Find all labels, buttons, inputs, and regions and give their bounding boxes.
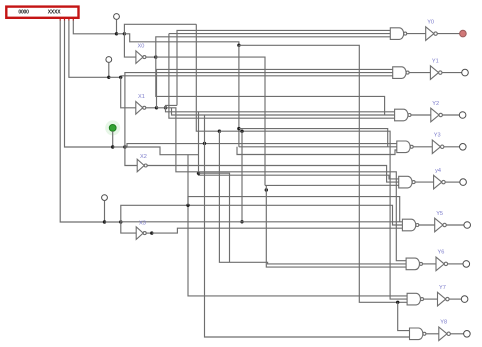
wire Y5 NAND to inverter	[419, 224, 435, 226]
wire x=239 drop to Y3 input 2 rail	[238, 45, 240, 147]
wire pin D stem	[104, 201, 106, 223]
wire y4 NAND to inverter	[415, 181, 434, 183]
wire A junction link	[117, 33, 125, 35]
wire Y0 NAND to inverter	[407, 33, 426, 35]
wire Y2 input 3 rail from x=169	[169, 34, 395, 119]
input pin A	[114, 14, 120, 20]
output pin Y5	[464, 222, 471, 229]
node A mid junction	[237, 44, 240, 47]
wire C drop to X2 input	[125, 147, 137, 166]
wire box pin3 to B row	[69, 20, 109, 77]
NAND gate Y2 driver	[395, 109, 408, 121]
NAND gate y4 driver	[399, 176, 412, 188]
input pin D	[102, 195, 108, 201]
wire Y7 NAND to inverter	[424, 298, 438, 300]
inverter Y3	[432, 140, 440, 154]
wire Y7 inverter to pin	[449, 298, 461, 300]
wire y=185.4 rail to y4 input 3	[265, 184, 399, 186]
wire X2 output rail to y4 input 2 feeder	[147, 166, 399, 183]
wire Y8 NAND to inverter	[426, 333, 439, 335]
output pin Y3	[460, 144, 467, 151]
wire C up branch to Y1 input 2 rail	[125, 73, 393, 147]
wire X3 rail up to Y5 input 3	[152, 228, 403, 233]
NAND gate Y8 driver	[410, 328, 423, 340]
wire Y2 input 1 rail	[166, 108, 395, 112]
output pin y4	[460, 179, 467, 186]
inverter X3	[136, 227, 143, 240]
node x=239 y=128 junction	[237, 127, 240, 130]
wire Y0 input 2 rail	[169, 33, 390, 35]
NAND gate Y5 driver	[402, 219, 415, 231]
svg-text:Y7: Y7	[439, 285, 446, 291]
inverter Y5	[435, 218, 443, 232]
wire x=397 drop to Y8 input 1	[398, 302, 410, 330]
input probe C green halo	[105, 120, 120, 135]
svg-text:XXXX: XXXX	[48, 10, 61, 16]
output pin Y0	[460, 30, 467, 37]
wire y4 inverter to pin	[445, 181, 460, 183]
wire box pin1 to D row	[60, 20, 104, 222]
node B junction 1	[107, 76, 110, 79]
output pin Y8	[464, 331, 471, 338]
wire Y8 inverter to pin	[450, 333, 463, 335]
NAND gate Y1 driver	[393, 67, 406, 79]
wire y=131 rail to Y7 input 2 feeder	[219, 131, 407, 299]
node C junction 1	[111, 145, 114, 148]
wire probe C stem	[112, 131, 114, 147]
wire A up branch top rail	[124, 24, 196, 34]
wire box pin2 to C row	[65, 20, 113, 147]
wire pin B stem	[108, 62, 110, 77]
node C staircase junction x=198 y=173	[197, 172, 200, 175]
wire X1 jog to x=175.9 down to Y6 input 1 feeder	[157, 108, 407, 261]
wire A rail to Y7 input 3 via x=359	[239, 45, 407, 302]
wire C staircase down	[125, 147, 199, 155]
wire x=219 drop s-bend to Y6 input 2	[219, 131, 406, 264]
wire Y6 NAND to inverter	[423, 263, 437, 265]
wire X0 up to NAND Y0 input 3	[156, 37, 390, 57]
wire Y5 inverter to pin	[446, 224, 464, 226]
inverter Y0	[426, 27, 434, 41]
box pin stubs (red)	[59, 18, 61, 21]
wire x=165 up link	[166, 105, 178, 107]
inverter Y8	[439, 327, 447, 341]
output pin Y1	[462, 69, 469, 76]
input probe C (green)	[109, 125, 116, 132]
wire Y1 NAND to inverter	[409, 72, 430, 74]
wire x=188 drop to Y7 input 1	[188, 155, 407, 296]
wire C junction link	[113, 146, 125, 148]
wire X1 up to NAND Y1 input 1	[157, 69, 393, 107]
wire D drop to X3 input	[121, 222, 136, 233]
wire box pin4 to A row	[73, 20, 116, 33]
node X1 output junction	[155, 106, 158, 109]
inverter Y6	[436, 257, 444, 271]
node junction x=242 y=131	[240, 130, 243, 133]
node junction x=219 y=131	[218, 130, 221, 133]
inverter X1	[136, 102, 143, 115]
node A junction 2	[123, 32, 126, 35]
node C junction 2	[123, 145, 126, 148]
wire Y1 inverter to pin	[442, 72, 462, 74]
node C rail junction x=204	[203, 142, 206, 145]
svg-text:X1: X1	[138, 94, 145, 100]
node X1 branch x=165	[164, 106, 167, 109]
wire B drop to X1 input	[121, 77, 136, 108]
svg-text:Y3: Y3	[434, 133, 441, 139]
wire x=188 up jog rail y=196.6 drop x=399.7	[188, 197, 400, 222]
wire Y2 inverter to pin	[442, 114, 459, 116]
svg-text:Y8: Y8	[440, 320, 447, 326]
wire x=266 down to Y6 input 3	[266, 185, 406, 267]
wire X1 output	[146, 107, 157, 109]
wire Y6 inverter to pin	[448, 263, 464, 265]
wire D rail to NAND Y5 input 1	[121, 221, 403, 223]
wire Y2 input 2 rail	[172, 108, 395, 115]
wire D up branch rail y=205.3 to Y5 input 2 feeder	[121, 205, 403, 225]
svg-text:Y5: Y5	[436, 211, 443, 217]
wire x=242 drop to Y5 input 1 rail	[241, 131, 243, 222]
inverter Y2	[431, 108, 439, 122]
output pin Y6	[463, 261, 470, 268]
node Y7 input 3 rail tap x=397	[396, 301, 399, 304]
NAND gate Y6 driver	[406, 258, 419, 270]
wire drop x=196 to y=131 rail	[196, 24, 219, 131]
wire X0 output	[146, 56, 156, 58]
wire Y3 input 2 rail	[239, 146, 397, 148]
wire A drop to X0 input	[124, 34, 135, 57]
svg-text:X3: X3	[139, 221, 146, 227]
node D junction 1	[103, 220, 106, 223]
wire X0 down branch to Y2 input 2 feeder	[156, 57, 385, 115]
svg-text:X0: X0	[138, 44, 145, 50]
wire X0 right rail y=57 drop x=265	[156, 57, 265, 185]
node A junction 1	[115, 32, 118, 35]
inverter Y1	[430, 66, 438, 80]
NAND gate Y0 driver	[390, 28, 403, 40]
input pin B	[106, 57, 112, 63]
inverter y4	[434, 175, 442, 189]
svg-text:Y1: Y1	[432, 58, 439, 64]
svg-text:y4: y4	[435, 168, 441, 174]
wire D junction link	[105, 221, 121, 223]
inverter X0	[136, 51, 143, 64]
output pin Y7	[461, 296, 468, 303]
node B junction 2	[119, 76, 122, 79]
NAND gate Y7 driver	[407, 293, 420, 305]
node x=266 y=190 junction	[265, 188, 268, 191]
inverter Y7	[438, 292, 446, 306]
node D junction 2	[119, 220, 122, 223]
wire stub to y=154 rail for Y3 input 3	[237, 147, 397, 155]
NAND gate Y3 driver	[397, 141, 410, 153]
wire B junction link	[109, 76, 121, 78]
wire X3 output	[146, 232, 152, 234]
svg-text:Y2: Y2	[432, 101, 439, 107]
wire A jog down	[124, 34, 238, 46]
wire x=204 drop to Y8 input 2	[205, 115, 410, 337]
wire B rail to NAND Y1 input 3	[121, 75, 393, 77]
output pin Y2	[459, 112, 466, 119]
wire pin A stem	[116, 19, 118, 33]
wire Y2 NAND to inverter	[411, 114, 431, 116]
inverter X2	[137, 159, 144, 172]
node X3 output junction	[150, 231, 153, 234]
wire y=128 rail elbow	[239, 129, 388, 147]
wire Y3 inverter to pin	[444, 146, 460, 148]
word generator box XWG1	[6, 7, 78, 18]
wire C parallel rail to Y3 input 1	[125, 144, 397, 147]
svg-text:0000: 0000	[18, 10, 29, 16]
wire Y3 NAND to inverter	[413, 146, 432, 148]
node junction x=242 y=222	[240, 220, 243, 223]
wire x=198.5 vertical to y4 input 1 feeder	[199, 112, 399, 179]
wire y=173 rail to x=229 drop	[199, 173, 230, 262]
wire Y0 inverter to pin	[437, 33, 459, 35]
svg-text:Y0: Y0	[427, 19, 434, 25]
node D rail junction x=188	[186, 204, 189, 207]
node X0 output junction	[154, 55, 157, 58]
wire Y0 input 1 rail via x=177	[177, 30, 390, 105]
svg-text:Y6: Y6	[438, 250, 445, 256]
svg-text:X2: X2	[140, 154, 147, 160]
